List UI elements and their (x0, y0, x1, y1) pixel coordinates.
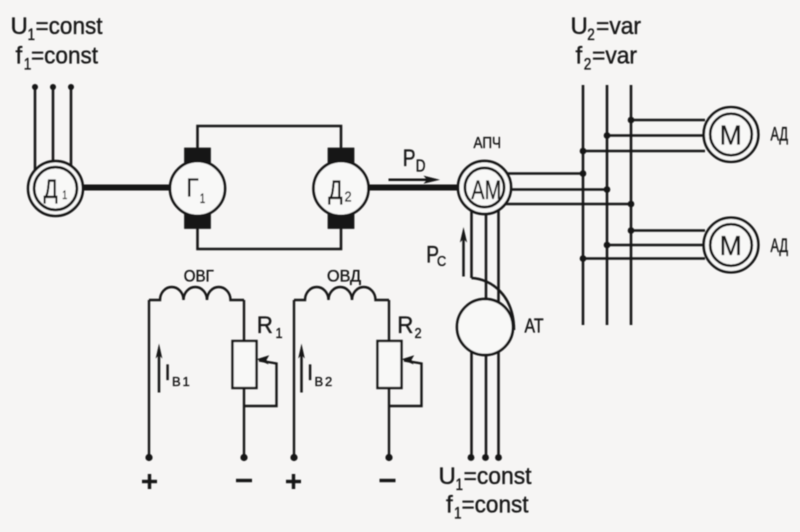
svg-text:R: R (397, 311, 413, 338)
svg-text:АПЧ: АПЧ (474, 135, 502, 152)
svg-text:АТ: АТ (525, 316, 544, 338)
svg-text:=const: =const (462, 492, 529, 519)
svg-text:Д: Д (44, 175, 58, 205)
svg-text:2: 2 (584, 55, 592, 74)
svg-text:=const: =const (464, 463, 532, 490)
svg-text:D: D (416, 157, 426, 176)
svg-text:=const: =const (36, 13, 103, 40)
svg-text:f: f (16, 43, 23, 70)
svg-text:f: f (446, 492, 453, 519)
svg-text:I: I (307, 360, 313, 385)
svg-text:АД: АД (771, 236, 789, 257)
svg-text:М: М (720, 119, 742, 151)
svg-text:=var: =var (596, 13, 641, 40)
svg-text:М: М (720, 229, 742, 261)
svg-text:U: U (11, 13, 28, 40)
svg-text:1: 1 (276, 324, 283, 341)
svg-text:2: 2 (345, 187, 352, 204)
svg-text:=var: =var (592, 43, 637, 70)
svg-text:2: 2 (325, 374, 332, 389)
svg-text:АД: АД (771, 125, 789, 146)
svg-text:ОВД: ОВД (327, 268, 361, 286)
svg-text:1: 1 (454, 504, 462, 523)
svg-text:U: U (439, 463, 456, 490)
svg-text:Г: Г (186, 174, 198, 203)
svg-text:Д: Д (328, 176, 342, 206)
svg-text:ОВГ: ОВГ (184, 268, 214, 286)
svg-text:1: 1 (62, 189, 67, 203)
svg-text:1: 1 (200, 190, 206, 206)
svg-text:R: R (257, 311, 273, 338)
svg-text:АМ: АМ (471, 175, 501, 206)
svg-text:U: U (571, 13, 588, 40)
svg-text:=const: =const (31, 43, 98, 70)
svg-text:P: P (403, 144, 416, 172)
svg-text:1: 1 (183, 374, 190, 389)
svg-text:В: В (315, 374, 324, 389)
svg-text:2: 2 (415, 324, 422, 341)
svg-text:I: I (165, 360, 171, 385)
svg-text:f: f (576, 43, 583, 70)
svg-text:C: C (437, 252, 446, 269)
svg-text:В: В (172, 374, 181, 389)
